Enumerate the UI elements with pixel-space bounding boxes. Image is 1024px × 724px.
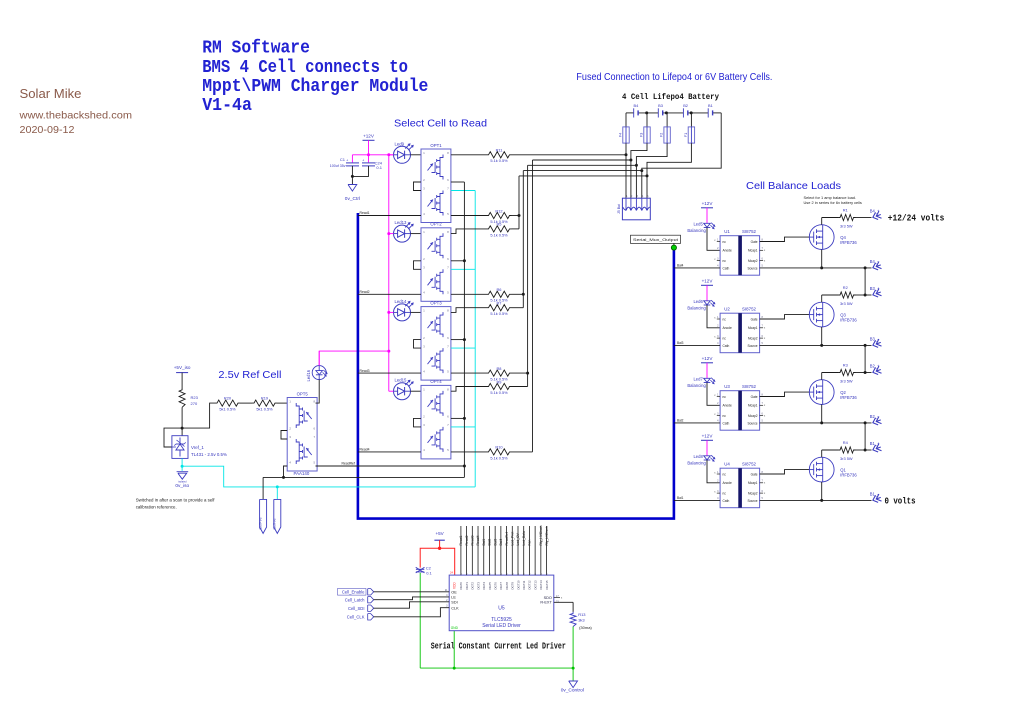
U5 output stub Bal1 <box>483 526 485 575</box>
junction row1 <box>625 153 628 156</box>
wire OPT5 bottom left to cell+ve rail <box>284 466 288 477</box>
U5 output stub Read2 <box>466 526 468 575</box>
svg-text:IRFB736: IRFB736 <box>840 395 857 400</box>
LED Led14 <box>394 304 411 321</box>
svg-text:Bal3: Bal3 <box>677 341 684 345</box>
resistor R2 3r3 5W <box>838 292 856 298</box>
svg-text:R8: R8 <box>497 366 502 371</box>
wire tap row2 <box>533 159 631 161</box>
wire B1 minus staircase to row4 <box>642 113 721 198</box>
wire R12 to tap bus <box>512 215 520 217</box>
wire F3 staircase to row2 <box>631 143 647 198</box>
svg-text:isolated: isolated <box>178 480 187 483</box>
svg-text:Led_Prot: Led_Prot <box>510 532 514 546</box>
svg-text:GND: GND <box>451 626 459 630</box>
svg-text:ReadRef: ReadRef <box>342 461 355 465</box>
junction row2 <box>629 159 632 162</box>
wire cell+ve rail <box>263 476 464 478</box>
wire OPT2 pin5 to R6 <box>451 293 487 295</box>
junction r13 gnd <box>572 667 575 670</box>
svg-text:nc: nc <box>723 337 727 341</box>
junction fuse F1 tap <box>690 111 693 114</box>
svg-text:OPT3: OPT3 <box>430 300 442 305</box>
svg-text:B2_+: B2_+ <box>870 364 880 369</box>
capacitor C1 <box>351 155 353 163</box>
svg-text:TL431 - 2.5v 0.5%: TL431 - 2.5v 0.5% <box>191 452 227 457</box>
connector B2_- <box>872 416 882 426</box>
U2 mcap stubs <box>760 327 764 329</box>
svg-text:RM Software: RM Software <box>202 39 310 59</box>
svg-text:DGT4: DGT4 <box>482 582 486 590</box>
OPT2 photoFET B <box>428 269 444 294</box>
wire Led16 cathode to OPT5 pin1 <box>316 380 320 404</box>
svg-text:0v_Control: 0v_Control <box>561 687 584 693</box>
svg-text:DGT12: DGT12 <box>528 580 532 589</box>
svg-text:DGT10: DGT10 <box>516 580 520 589</box>
resistor R19 5k1 <box>252 400 277 406</box>
wire U5 R-EXT to R13 <box>554 601 573 603</box>
svg-text:5.1k 0.5%: 5.1k 0.5% <box>490 158 508 163</box>
svg-text:DGT6: DGT6 <box>493 582 497 590</box>
wire R2 to connector <box>856 294 872 296</box>
svg-text:F2: F2 <box>659 133 664 138</box>
connector B1_- <box>872 494 882 504</box>
svg-text:VDD: VDD <box>453 582 457 589</box>
wire magenta to Led16 anode <box>318 351 320 366</box>
svg-text:Vref_1: Vref_1 <box>191 445 204 450</box>
wire tap row5 <box>519 175 647 177</box>
J5 pin wire <box>646 198 648 209</box>
junction ground node <box>351 175 354 178</box>
OPT3 pin6 to mux common <box>451 339 465 341</box>
OPT1 photoFET B <box>428 191 444 216</box>
svg-text:Select Cell to Read: Select Cell to Read <box>394 118 487 129</box>
svg-text:DGT2: DGT2 <box>471 582 475 590</box>
svg-text:Read1: Read1 <box>360 211 370 215</box>
wire Q2 source down <box>821 405 823 423</box>
junction cyan ref <box>181 465 184 468</box>
svg-text:calibration reference.: calibration reference. <box>136 505 177 510</box>
junction R12 tap <box>518 214 521 217</box>
svg-text:R7: R7 <box>497 301 502 306</box>
capacitor C24 <box>368 155 370 163</box>
wire C24 down and left to ground node <box>352 166 368 177</box>
wire OPT2 pin8 jog to R5 <box>451 229 487 234</box>
LED Led13 <box>394 225 411 242</box>
junction source Q2 <box>820 421 823 424</box>
svg-text:TLC5925: TLC5925 <box>491 617 512 623</box>
isolated gate driver U1 SI8752 body <box>720 236 760 276</box>
wire Cell_CLK to U5 <box>374 608 450 617</box>
wire bal3 from bus to U3 cath <box>674 422 720 424</box>
U5 output stub Fan <box>528 526 530 575</box>
U5 output stub Bal3 <box>494 526 496 575</box>
svg-text:B2_-: B2_- <box>870 414 879 419</box>
svg-text:0.1: 0.1 <box>376 165 382 170</box>
svg-text:Cath: Cath <box>723 344 730 348</box>
svg-text:DGT15: DGT15 <box>545 580 549 589</box>
svg-text:R1: R1 <box>843 207 848 212</box>
U5 output stub Read4 <box>477 526 479 575</box>
svg-text:5k1 0.5%: 5k1 0.5% <box>219 407 236 412</box>
wire OPT4 pin5 to R10 <box>451 451 487 453</box>
svg-text:B3: B3 <box>658 103 663 108</box>
U5 output stub Read1 <box>460 526 462 575</box>
svg-text:Mcap2: Mcap2 <box>748 492 758 496</box>
wire bal1 from bus to U1 cath <box>674 267 720 269</box>
wire bal2 from bus to U2 cath <box>674 344 720 346</box>
svg-text:Mppt\PWM Charger Module: Mppt\PWM Charger Module <box>202 77 428 97</box>
junction source Q4 <box>820 266 823 269</box>
ground 0v_Control <box>569 681 578 688</box>
svg-text:270: 270 <box>191 401 198 406</box>
svg-text:Gate: Gate <box>751 240 758 244</box>
svg-text:www.thebackshed.com: www.thebackshed.com <box>18 109 132 121</box>
wire green C2 to ground rail <box>419 573 421 668</box>
svg-text:B4_+: B4_+ <box>870 209 880 214</box>
OPT3 left jog pins 2-3 <box>414 340 422 349</box>
svg-text:F1: F1 <box>683 133 688 138</box>
OPT4 pin7 cyan stub <box>451 426 475 428</box>
wire R1 to connector <box>856 217 872 219</box>
OPT4 photoFET A <box>428 391 444 416</box>
junction mux common opt4 <box>463 417 466 420</box>
svg-text:OPT4: OPT4 <box>430 379 442 384</box>
svg-text:nc: nc <box>723 472 727 476</box>
wire Led9 cathode to OPT1 pin1 <box>411 154 422 156</box>
wire cyan mux vertical <box>474 191 476 487</box>
junction 12v stem <box>367 153 370 156</box>
svg-text:R19: R19 <box>261 395 268 400</box>
svg-text:nc: nc <box>723 414 727 418</box>
svg-text:Rly_HVDisch: Rly_HVDisch <box>539 525 543 545</box>
wire U1 source row <box>760 267 872 269</box>
svg-text:Cell+ve: Cell+ve <box>259 517 263 529</box>
svg-text:3k3: 3k3 <box>578 617 585 622</box>
connector J5 battery <box>622 198 650 220</box>
wire Read2 <box>358 293 421 295</box>
svg-text:DGT8: DGT8 <box>505 582 509 590</box>
wire mux label stub <box>673 243 675 248</box>
wire cyan ref to cell-ve rail <box>182 466 475 487</box>
wire green to 0v_Control ground <box>572 668 574 681</box>
svg-text:Mcap1: Mcap1 <box>748 249 758 253</box>
svg-text:Read2: Read2 <box>360 290 370 294</box>
svg-text:5.1k 0.5%: 5.1k 0.5% <box>490 390 508 395</box>
svg-text:DGT9: DGT9 <box>511 582 515 590</box>
svg-text:OPT2: OPT2 <box>430 222 442 227</box>
svg-text:B4: B4 <box>634 103 640 108</box>
ground 0v_Ctrl <box>351 176 353 184</box>
svg-text:B1_-: B1_- <box>870 492 879 497</box>
svg-text:F3: F3 <box>638 133 643 138</box>
svg-text:Use 2 in series for 6v battery: Use 2 in series for 6v battery cells <box>804 200 862 205</box>
junction mux common opt2 <box>463 259 466 262</box>
OPT1 pin6 to mux common <box>451 181 465 183</box>
wire bal4 from bus to U4 cath <box>674 499 720 501</box>
wire tap row3 <box>528 164 637 166</box>
isolated gate driver U4 SI8752 body <box>720 468 760 508</box>
capacitor C2 0.1 <box>416 568 424 570</box>
svg-text:DGT13: DGT13 <box>533 580 537 589</box>
svg-text:J5 Bat: J5 Bat <box>617 204 621 214</box>
svg-text:DGT5: DGT5 <box>488 582 492 590</box>
svg-text:U1: U1 <box>724 229 730 234</box>
svg-text:Cell_Latch: Cell_Latch <box>345 597 365 602</box>
battery cell B3 <box>657 108 659 117</box>
J5 pin wire <box>630 198 632 209</box>
wire U3 gate to Q2 <box>760 392 810 396</box>
wire C1 to ground <box>351 166 353 177</box>
junction ref node <box>181 427 184 430</box>
svg-text:Led7: Led7 <box>693 377 703 382</box>
svg-text:5.1k 0.5%: 5.1k 0.5% <box>490 455 508 460</box>
junction gnd pin <box>453 667 456 670</box>
svg-text:Led15: Led15 <box>395 378 408 383</box>
optocoupler OPT3 body <box>421 307 451 381</box>
svg-text:3r3 5W: 3r3 5W <box>840 456 853 461</box>
wire series link B3- to B2+ <box>864 345 866 372</box>
junction source Q1 <box>820 499 823 502</box>
bus serial mux thick blue <box>358 213 674 519</box>
svg-text:+12V: +12V <box>702 201 714 206</box>
wire Led15 cathode to OPT4 pin1 <box>411 390 422 392</box>
svg-text:3r3 5W: 3r3 5W <box>840 301 853 306</box>
svg-text:Source: Source <box>747 266 757 270</box>
svg-text:Rly_LVDisch: Rly_LVDisch <box>545 526 549 545</box>
J5 pin wire <box>641 198 643 209</box>
wire magenta branch to Led16 <box>319 351 389 366</box>
wire Read3 <box>358 372 421 374</box>
vref feedback loop wire <box>164 428 182 447</box>
svg-text:R11: R11 <box>496 148 503 153</box>
svg-text:Balancing: Balancing <box>687 305 706 310</box>
svg-text:Mcap2: Mcap2 <box>748 414 758 418</box>
svg-text:Read1: Read1 <box>459 535 463 545</box>
svg-text:Bal2: Bal2 <box>488 539 492 546</box>
svg-text:Source: Source <box>747 499 757 503</box>
junction fuse F2 tap <box>665 111 668 114</box>
optocoupler OPT5 body <box>287 398 317 472</box>
svg-text:SI8752: SI8752 <box>742 462 756 467</box>
OPT2 left jog pins 2-3 <box>414 261 422 270</box>
junction R8 tap <box>526 372 529 375</box>
svg-text:0v_iso: 0v_iso <box>175 483 189 489</box>
svg-text:Read4: Read4 <box>476 535 480 545</box>
svg-text:0v_Ctrl: 0v_Ctrl <box>345 196 360 202</box>
svg-text:DGT0: DGT0 <box>459 582 463 590</box>
wire Led13 cathode to OPT2 pin1 <box>411 233 422 235</box>
svg-text:Cell_Enable: Cell_Enable <box>342 590 365 595</box>
battery cell B4 <box>633 108 635 117</box>
fuse F1 <box>690 113 692 127</box>
connector B4_+ <box>872 211 882 221</box>
wire OPT5 readref output <box>316 465 465 467</box>
battery tap vertical 5 <box>518 176 520 229</box>
svg-text:OPT1: OPT1 <box>430 143 442 148</box>
svg-text:R9: R9 <box>497 379 502 384</box>
svg-text:Led13: Led13 <box>395 220 408 225</box>
wire red vdd rail <box>420 548 455 575</box>
connector flag Cell+ve <box>262 477 264 499</box>
mosfet Q2 IRFB736 <box>809 380 834 405</box>
svg-text:V1-4a: V1-4a <box>202 96 252 116</box>
resistor R6 <box>487 291 512 297</box>
svg-text:SDI: SDI <box>451 600 457 604</box>
svg-text:Led9: Led9 <box>395 141 405 146</box>
svg-text:IRFB736: IRFB736 <box>840 472 857 477</box>
junction row3 <box>635 164 638 167</box>
OPT5 photoFET B <box>296 439 312 464</box>
wire magenta bus to Led13 <box>389 233 394 235</box>
resistor R8 <box>487 370 512 376</box>
mosfet Q1 IRFB736 <box>809 457 834 482</box>
wire OPT1 pin5 to R12 <box>451 215 487 217</box>
LED Led6 balancing <box>704 301 711 305</box>
svg-text:U4: U4 <box>724 462 730 467</box>
wire Cell_Latch to U5 <box>374 597 450 600</box>
svg-text:R12: R12 <box>495 208 502 213</box>
svg-text:Led_Bala: Led_Bala <box>522 531 526 545</box>
J5 pin wire <box>635 198 637 209</box>
svg-text:2020-09-12: 2020-09-12 <box>20 124 75 136</box>
svg-text:+5V_iso: +5V_iso <box>174 365 191 370</box>
junction readref to mux <box>463 465 466 468</box>
svg-text:R6: R6 <box>497 287 502 292</box>
svg-text:+: + <box>346 158 348 162</box>
wire Q1 source down <box>821 482 823 500</box>
wire R7 to tap bus <box>512 307 524 309</box>
wire series link B2- to B1+ <box>864 423 866 450</box>
wire R11 to battery tap1 <box>512 154 627 156</box>
wire U3 source row <box>760 422 872 424</box>
junction led bus corner <box>387 153 390 156</box>
junction row4 <box>640 169 643 172</box>
OPT3 pin7 cyan stub <box>451 347 475 349</box>
resistor R3 3r3 5W <box>838 369 856 375</box>
svg-text:DGT11: DGT11 <box>522 580 526 589</box>
battery tap vertical 2 <box>532 160 534 452</box>
wire magenta bus to Led9 <box>389 154 394 156</box>
svg-text:DGT3: DGT3 <box>476 582 480 590</box>
OPT4 photoFET B <box>428 427 444 452</box>
U3 nc stubs <box>717 396 720 398</box>
svg-text:0.1: 0.1 <box>426 571 432 576</box>
wire F1 staircase to row5 <box>647 143 691 198</box>
svg-text:nc: nc <box>723 240 727 244</box>
svg-text:5.1k 0.5%: 5.1k 0.5% <box>490 232 508 237</box>
svg-text:nc: nc <box>723 395 727 399</box>
U5 output stub Bal4 <box>500 526 502 575</box>
svg-text:B1: B1 <box>708 103 713 108</box>
svg-text:nc: nc <box>723 492 727 496</box>
svg-text:B1_+: B1_+ <box>870 441 880 446</box>
resistor R5 <box>487 226 512 232</box>
svg-text:IRFB736: IRFB736 <box>840 240 857 245</box>
svg-text:Fused Connection to Lifepo4 or: Fused Connection to Lifepo4 or 6V Batter… <box>576 71 772 83</box>
svg-text:U2: U2 <box>724 307 730 312</box>
svg-text:Cell-ve: Cell-ve <box>273 518 277 529</box>
OPT1 left jog pins 2-3 <box>414 182 422 191</box>
wire OPT3 pin8 jog to R7 <box>451 308 487 313</box>
U5 output stub ReadRef <box>506 526 508 575</box>
svg-text:Gate: Gate <box>751 395 758 399</box>
wire R19 to OPT5 <box>277 402 287 404</box>
wire R5 to tap bus <box>512 228 520 230</box>
wire Q4 drain to resistor R1 <box>821 218 823 225</box>
svg-text:Anode: Anode <box>723 326 732 330</box>
svg-text:Mcap2: Mcap2 <box>748 259 758 263</box>
svg-text:Cath: Cath <box>723 499 730 503</box>
U1 mcap stubs <box>760 249 764 251</box>
junction cell-ve <box>276 485 279 488</box>
wire Q4 source down <box>821 250 823 268</box>
svg-text:IRFB736: IRFB736 <box>840 317 857 322</box>
resistor R23 270 <box>179 388 185 407</box>
U4 nc stubs <box>717 473 720 475</box>
OPT3 photoFET A <box>428 312 444 337</box>
svg-text:Led5: Led5 <box>693 222 703 227</box>
svg-text:0 volts: 0 volts <box>885 497 916 507</box>
U5 output stub Led_Bala <box>523 526 525 575</box>
optocoupler OPT1 body <box>421 149 451 223</box>
wire OPT1 pin8 to R11 <box>451 154 487 156</box>
wire green ground rail horizontal <box>420 667 573 669</box>
LED Led9 <box>394 146 411 163</box>
wire R8 to tap bus <box>512 372 528 374</box>
svg-text:Serial_Mux_Output: Serial_Mux_Output <box>633 237 679 242</box>
OPT4 pin6 to mux common <box>451 417 465 419</box>
svg-text:3r3 5W: 3r3 5W <box>840 224 853 229</box>
svg-text:R2: R2 <box>843 285 848 290</box>
wire OPT3 pin5 to R8 <box>451 372 487 374</box>
wire U4 source row <box>760 499 872 501</box>
svg-text:Serial Constant Current Led Dr: Serial Constant Current Led Driver <box>431 642 566 652</box>
svg-text:B4_-: B4_- <box>870 259 879 264</box>
svg-text:Mcap2: Mcap2 <box>748 337 758 341</box>
battery top wire segments <box>626 112 634 114</box>
svg-text:+12V: +12V <box>702 434 714 439</box>
mosfet Q3 IRFB736 <box>809 302 834 327</box>
svg-text:R23: R23 <box>191 395 199 400</box>
svg-text:Bal1: Bal1 <box>677 496 684 500</box>
svg-text:5.1k 0.5%: 5.1k 0.5% <box>490 311 508 316</box>
junction source Q3 <box>820 344 823 347</box>
svg-text:+12V: +12V <box>702 356 714 361</box>
fuse F3 <box>646 113 648 127</box>
battery cell B2 <box>682 108 684 117</box>
svg-text:DGT7: DGT7 <box>499 582 503 590</box>
svg-text:R10: R10 <box>495 445 503 450</box>
svg-text:OE: OE <box>451 590 457 594</box>
svg-text:CLK: CLK <box>451 606 459 610</box>
svg-text:R20: R20 <box>224 395 232 400</box>
wire tap row4 <box>523 170 642 172</box>
wire F2 staircase to row3 <box>636 143 667 198</box>
wire series link B4- to B3+ <box>864 268 866 295</box>
svg-text:SI8752: SI8752 <box>742 307 756 312</box>
wire R6 to tap bus <box>512 293 524 295</box>
LED Led15 <box>394 383 411 400</box>
svg-text:LE: LE <box>451 596 456 600</box>
OPT2 pin6 to mux common <box>451 260 465 262</box>
resistor R9 <box>487 383 512 389</box>
mosfet Q4 IRFB736 <box>809 225 834 250</box>
wire Led7 cathode to U3 anode pin <box>707 383 720 406</box>
svg-text:R13: R13 <box>578 612 586 617</box>
U5 output stub Led_OV <box>517 526 519 575</box>
svg-text:R4: R4 <box>843 440 849 445</box>
